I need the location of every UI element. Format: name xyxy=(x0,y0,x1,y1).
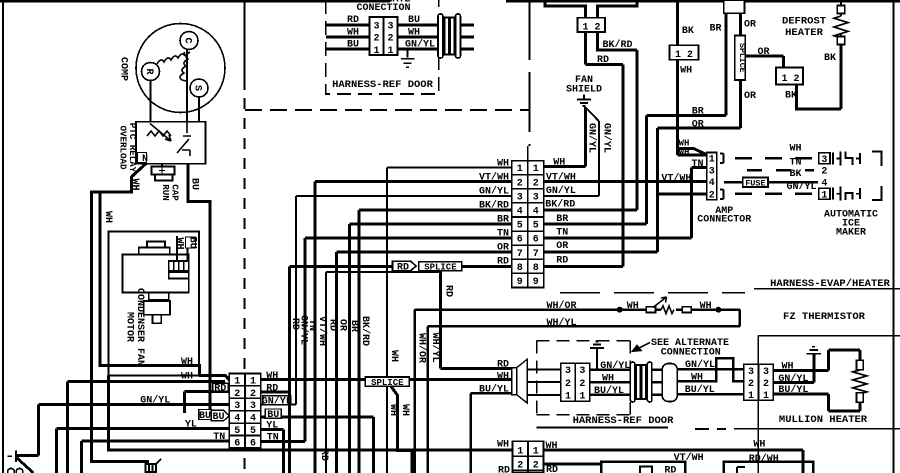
SPLICE box xyxy=(419,262,462,271)
svg-text:3: 3 xyxy=(373,21,379,32)
amp bracket pin2 xyxy=(720,190,724,200)
mullion connector xyxy=(744,364,774,400)
connector A dividers xyxy=(229,374,260,449)
wire RD left xyxy=(326,24,370,27)
fuse wire row4 xyxy=(724,181,818,184)
svg-text:2: 2 xyxy=(373,34,379,45)
svg-text:6: 6 xyxy=(250,438,256,449)
SPLICE box bottom xyxy=(365,377,409,386)
wire RD pin1 down + tee xyxy=(544,32,623,266)
dashed remnant y=429 xyxy=(695,428,726,430)
wire WH to bottom connector xyxy=(109,376,513,451)
svg-text:WH: WH xyxy=(408,28,420,39)
bottom box 2 inner mark xyxy=(737,467,745,473)
svg-text:6: 6 xyxy=(517,235,523,246)
terminal S xyxy=(190,79,208,97)
wire WH right xyxy=(676,310,740,327)
harness boundary dashed vertical x=244.5 xyxy=(244,0,246,90)
wire compressor C to relay xyxy=(186,50,188,122)
svg-text:WH: WH xyxy=(266,371,278,382)
winding C-S xyxy=(180,52,190,81)
wire BK/RD row4 xyxy=(359,210,512,473)
exit diagonal xyxy=(17,458,34,473)
svg-text:BK: BK xyxy=(789,169,801,180)
wires grommet to barrel xyxy=(652,370,662,395)
wire RD to funnel xyxy=(441,367,512,370)
svg-text:RD: RD xyxy=(266,384,278,395)
dashes row3 xyxy=(747,169,814,172)
svg-text:BU: BU xyxy=(187,237,198,249)
wire GN/YL crossover jog xyxy=(677,358,744,381)
svg-text:BK/RD: BK/RD xyxy=(479,200,509,212)
svg-text:RD: RD xyxy=(497,359,509,370)
wire TN to pin6 xyxy=(81,441,229,473)
wire BU from relay to run-cap side xyxy=(188,164,210,411)
wire GN/YL fan shield diagonal xyxy=(544,106,599,196)
svg-text:BU: BU xyxy=(212,412,224,423)
svg-text:6: 6 xyxy=(533,235,539,246)
grommet exit wires xyxy=(456,25,474,49)
wire WH to amp pin1 lower xyxy=(678,153,707,156)
wire BU left xyxy=(326,48,370,51)
page left border line xyxy=(2,2,4,473)
wire RD thin branch xyxy=(326,272,441,473)
svg-text:C: C xyxy=(182,37,193,43)
wire WH branch to motor bottom xyxy=(100,192,200,376)
winding R-C xyxy=(157,52,185,64)
splice vertical box xyxy=(735,36,745,81)
svg-text:SHIELD: SHIELD xyxy=(566,85,602,96)
wire WH to amp pin1 upper xyxy=(678,148,707,154)
svg-text:SPLICE: SPLICE xyxy=(424,263,457,273)
wire WH splice drop xyxy=(391,386,412,473)
dashes row2 xyxy=(735,193,814,196)
wire OR splice top xyxy=(739,13,742,35)
svg-text:YL: YL xyxy=(266,420,278,431)
9-pin dividers xyxy=(527,161,529,288)
svg-text:BK/RD: BK/RD xyxy=(603,39,633,51)
wire BU row4 right xyxy=(261,417,374,473)
svg-text:BK: BK xyxy=(824,53,836,64)
svg-text:2: 2 xyxy=(250,389,256,400)
wire WH mullion xyxy=(773,350,860,370)
svg-text:WH: WH xyxy=(181,357,193,368)
svg-text:WH: WH xyxy=(497,440,509,451)
wire TN row6 right xyxy=(261,440,305,443)
svg-text:7: 7 xyxy=(517,249,523,260)
wire BU/YL row1 to grommet xyxy=(590,394,631,397)
svg-text:BK/RD: BK/RD xyxy=(602,0,632,7)
svg-text:GN/YL: GN/YL xyxy=(586,123,598,153)
svg-text:BK/RD: BK/RD xyxy=(545,199,575,211)
svg-text:RD: RD xyxy=(498,466,510,473)
9-pin connector body xyxy=(512,161,544,288)
wire WH below connector xyxy=(676,60,679,155)
svg-text:HEATER: HEATER xyxy=(785,27,824,39)
motor enclosure box xyxy=(109,232,199,376)
svg-text:CONNECTOR: CONNECTOR xyxy=(697,215,751,226)
svg-text:WH: WH xyxy=(789,144,801,155)
wire TN to amp pin3 xyxy=(544,168,707,238)
wire OR branch to amp pin2 xyxy=(658,192,707,195)
svg-text:GN/YL: GN/YL xyxy=(786,181,816,193)
svg-text:SPLICE: SPLICE xyxy=(737,43,746,73)
arrow to box xyxy=(633,343,651,352)
wire BU/YL mullion xyxy=(773,394,860,411)
wire WH left xyxy=(326,36,370,39)
svg-text:2: 2 xyxy=(821,167,827,178)
svg-text:TN: TN xyxy=(497,229,509,240)
ice maker right bracket top xyxy=(872,152,882,167)
label RD boxed xyxy=(213,383,228,391)
wire BU/YL to mullion connector xyxy=(677,393,744,396)
svg-text:WH: WH xyxy=(680,65,692,76)
connector A body xyxy=(229,374,260,449)
svg-text:1: 1 xyxy=(565,391,571,402)
svg-text:TN: TN xyxy=(306,319,317,331)
svg-text:8: 8 xyxy=(533,263,539,274)
connector 1-2 (BK/WH) xyxy=(678,0,707,155)
svg-text:TN: TN xyxy=(556,227,568,238)
ground symbol below GN/YL xyxy=(401,49,415,67)
svg-text:BR: BR xyxy=(709,24,721,35)
svg-text:HARNESS-REF DOOR: HARNESS-REF DOOR xyxy=(332,79,434,91)
9-pin left side wires xyxy=(296,168,512,473)
svg-text:1: 1 xyxy=(234,376,240,387)
wire WH mid xyxy=(656,308,662,311)
svg-text:4: 4 xyxy=(533,207,539,218)
svg-text:RD: RD xyxy=(546,465,558,473)
relay switch xyxy=(177,122,191,156)
connector 1-2 defrost xyxy=(776,68,803,85)
svg-text:1: 1 xyxy=(533,164,539,175)
svg-text:RD: RD xyxy=(318,449,329,461)
dashes row1 xyxy=(735,157,818,160)
wire WH row2 to grommet xyxy=(590,381,631,384)
small circles xyxy=(8,468,15,473)
svg-text:RD: RD xyxy=(560,0,572,7)
svg-text:1: 1 xyxy=(763,391,769,402)
svg-text:WH: WH xyxy=(174,237,185,249)
wire WH right xyxy=(398,36,440,39)
svg-text:2: 2 xyxy=(687,50,693,61)
svg-text:3: 3 xyxy=(748,367,754,378)
svg-text:2: 2 xyxy=(533,178,539,189)
overload element zigzag xyxy=(147,131,171,136)
svg-text:TN: TN xyxy=(267,433,279,444)
svg-text:1: 1 xyxy=(387,46,393,57)
wire BR xyxy=(544,13,726,224)
ice maker contacts row1 xyxy=(833,187,860,201)
wire conn3 pin2 to heater xyxy=(797,45,842,110)
svg-text:1: 1 xyxy=(675,50,681,61)
svg-text:3: 3 xyxy=(234,401,240,412)
svg-text:RD: RD xyxy=(214,384,226,395)
ice maker terminal 3 boxed xyxy=(819,153,830,164)
svg-text:OR: OR xyxy=(497,243,509,254)
wire BU flag feed xyxy=(208,411,211,415)
svg-text:WH/OR: WH/OR xyxy=(546,300,576,312)
svg-text:7: 7 xyxy=(533,249,539,260)
svg-text:WH: WH xyxy=(700,301,712,312)
top box with OR/BR leads xyxy=(724,0,745,13)
svg-text:9: 9 xyxy=(533,277,539,288)
wire RD from top edge xyxy=(545,0,586,18)
svg-text:SPLICE: SPLICE xyxy=(371,378,404,388)
junction dot left xyxy=(617,307,623,313)
svg-text:MULLION HEATER: MULLION HEATER xyxy=(779,414,868,426)
svg-text:CONECTION: CONECTION xyxy=(356,3,410,14)
ice maker terminal 1 boxed xyxy=(819,188,830,199)
svg-text:RD: RD xyxy=(443,285,454,297)
svg-text:1: 1 xyxy=(582,22,588,33)
mullion section divider vertical xyxy=(757,336,759,473)
wire GN/YL row3 to grommet xyxy=(590,368,631,371)
svg-text:RD: RD xyxy=(347,15,359,26)
svg-text:3: 3 xyxy=(533,192,539,203)
wire BU right xyxy=(398,24,440,27)
svg-text:4: 4 xyxy=(234,414,240,425)
svg-text:WH: WH xyxy=(102,211,113,223)
svg-text:2: 2 xyxy=(748,379,754,390)
run cap plus mark xyxy=(159,168,165,174)
svg-text:BU: BU xyxy=(347,40,359,51)
dashed box xyxy=(537,341,631,415)
ground symbol door xyxy=(590,342,604,349)
svg-text:RD: RD xyxy=(497,257,509,268)
svg-text:BK: BK xyxy=(785,91,797,102)
svg-text:WH: WH xyxy=(129,178,140,190)
wire RD left of pin2 xyxy=(184,391,229,413)
evap section dashed boundary y=292.8 xyxy=(560,292,745,294)
svg-text:2: 2 xyxy=(594,22,600,33)
svg-text:BU/YL: BU/YL xyxy=(594,385,624,397)
svg-text:WH/YL: WH/YL xyxy=(546,317,576,329)
svg-text:2: 2 xyxy=(579,379,585,390)
bottom-right section line y=428.8 xyxy=(734,428,900,430)
svg-text:4: 4 xyxy=(517,207,523,218)
wire WH row1 xyxy=(387,168,512,473)
terminal N box xyxy=(138,153,147,163)
svg-text:VT/WH: VT/WH xyxy=(546,171,576,183)
mullion section top line xyxy=(758,335,900,337)
svg-text:WH: WH xyxy=(399,404,410,416)
wire GN/YL row3 xyxy=(296,196,512,405)
overload arrow xyxy=(150,124,171,142)
svg-text:WH: WH xyxy=(181,371,193,382)
amp bracket pin1 xyxy=(720,154,724,164)
svg-text:WH: WH xyxy=(691,373,703,384)
svg-text:WH: WH xyxy=(387,404,398,416)
thermistor terminal right xyxy=(682,307,691,313)
svg-text:RD: RD xyxy=(327,319,338,331)
svg-text:2: 2 xyxy=(387,34,393,45)
mullion heater resistor xyxy=(853,360,867,402)
svg-text:PTC RELAY: PTC RELAY xyxy=(127,123,138,173)
svg-text:2: 2 xyxy=(709,190,715,201)
svg-text:BR: BR xyxy=(497,215,509,226)
wire BU/YL to funnel xyxy=(471,393,512,473)
door connector (bottom) 3/2/1 xyxy=(527,370,561,395)
svg-text:WH: WH xyxy=(388,350,399,362)
svg-text:GN/YL: GN/YL xyxy=(405,39,435,51)
svg-text:5: 5 xyxy=(250,426,256,437)
svg-text:WH: WH xyxy=(497,371,509,382)
wire GN/YL to pin3 xyxy=(16,405,229,456)
wire compressor S to relay xyxy=(198,97,200,122)
svg-text:GN/YL: GN/YL xyxy=(600,360,630,372)
svg-text:OR: OR xyxy=(744,19,756,30)
wire OR row7 xyxy=(336,252,512,473)
thermistor zigzag xyxy=(661,306,674,314)
label GN/YL boxed right of pin3 xyxy=(263,396,291,405)
wire YL row5 right xyxy=(261,429,284,473)
boundary line above 9-pin connector xyxy=(527,146,529,161)
svg-text:2: 2 xyxy=(763,379,769,390)
svg-text:3: 3 xyxy=(763,367,769,378)
svg-text:8: 8 xyxy=(517,263,523,274)
svg-text:2: 2 xyxy=(565,379,571,390)
wire BK/RD pin2 down xyxy=(544,32,637,210)
svg-text:CONDENSER FAN: CONDENSER FAN xyxy=(134,288,145,366)
wire WH to funnel (already drawn row1) xyxy=(409,378,512,381)
wire RD row8 to flag xyxy=(290,266,393,473)
wire compressor R to relay xyxy=(150,81,152,122)
FUSE box xyxy=(743,178,768,188)
svg-text:VT/WH: VT/WH xyxy=(479,172,509,184)
svg-text:WH/OR: WH/OR xyxy=(416,333,428,363)
svg-text:3: 3 xyxy=(565,366,571,377)
svg-text:1: 1 xyxy=(781,74,787,85)
svg-text:FUSE: FUSE xyxy=(745,179,765,189)
label BU boxed xyxy=(199,410,212,420)
svg-text:WH: WH xyxy=(347,28,359,39)
wire WH from relay N down-left loop xyxy=(91,164,149,462)
svg-text:WH: WH xyxy=(627,301,639,312)
label BU boxed right of pin4 xyxy=(265,409,281,418)
svg-text:GN/YL: GN/YL xyxy=(262,395,292,407)
svg-text:4: 4 xyxy=(250,414,256,425)
svg-text:1: 1 xyxy=(373,46,379,57)
svg-text:MAKER: MAKER xyxy=(836,228,866,239)
connector A right-side wires xyxy=(261,380,512,473)
harness boundary dashed horizontal y=110 xyxy=(245,109,530,111)
motor shaft xyxy=(149,293,169,301)
thermistor terminal left xyxy=(646,307,655,313)
defrost heater resistor xyxy=(834,0,848,45)
svg-text:3: 3 xyxy=(709,166,715,177)
svg-text:1: 1 xyxy=(250,376,256,387)
run cap connector lead xyxy=(161,164,163,167)
svg-text:3: 3 xyxy=(250,401,256,412)
compressor circle xyxy=(136,24,225,113)
motor terminal block hatched xyxy=(169,261,189,271)
svg-text:BU/YL: BU/YL xyxy=(685,384,715,396)
label BU flag xyxy=(211,410,229,421)
svg-text:3: 3 xyxy=(517,192,523,203)
svg-text:2: 2 xyxy=(533,461,539,472)
svg-text:BU: BU xyxy=(199,411,211,422)
svg-text:5: 5 xyxy=(517,221,523,232)
svg-text:TN: TN xyxy=(692,159,704,170)
svg-text:COMP: COMP xyxy=(118,57,129,81)
wire VT/WH row2 to amp pin4 xyxy=(544,180,707,183)
motor lead WH xyxy=(176,236,178,261)
harness boundary dashed vertical x=529.5 xyxy=(529,0,531,146)
svg-text:GN/YL: GN/YL xyxy=(685,359,715,371)
svg-text:BR: BR xyxy=(692,107,704,118)
svg-text:OR: OR xyxy=(692,120,704,131)
svg-text:RUN: RUN xyxy=(160,184,171,201)
motor lead BU xyxy=(187,248,189,261)
svg-text:OR: OR xyxy=(744,91,756,102)
svg-text:WH: WH xyxy=(553,157,565,168)
svg-text:3: 3 xyxy=(821,155,827,166)
ice maker right bracket bottom xyxy=(872,186,882,200)
svg-text:HARNESS-REF DOOR: HARNESS-REF DOOR xyxy=(573,415,675,427)
wire VT/WH row2 xyxy=(315,182,512,473)
wire RD splice to pin8 xyxy=(462,265,512,268)
svg-text:BU: BU xyxy=(408,15,420,26)
svg-text:VT/WH: VT/WH xyxy=(661,173,691,185)
page top border bar left xyxy=(0,0,390,2)
svg-text:2: 2 xyxy=(517,461,523,472)
terminal R xyxy=(142,63,160,81)
svg-text:WH/YL: WH/YL xyxy=(429,333,441,363)
svg-text:BR: BR xyxy=(556,214,568,225)
svg-text:2: 2 xyxy=(234,389,240,400)
connector 1-2 top xyxy=(578,18,606,32)
RD flag xyxy=(393,261,417,271)
svg-text:3: 3 xyxy=(579,366,585,377)
svg-text:1: 1 xyxy=(579,391,585,402)
wire WH row1 right through splice xyxy=(261,378,512,381)
ice maker contacts row3 xyxy=(833,152,860,166)
svg-text:OR: OR xyxy=(556,241,568,252)
door connector 3/2/1 xyxy=(370,17,398,55)
svg-text:9: 9 xyxy=(517,277,523,288)
box1 inner mark xyxy=(640,467,652,473)
svg-text:WH: WH xyxy=(782,362,794,373)
svg-text:GN/YL: GN/YL xyxy=(601,123,613,153)
wire WH into pin1 via diagonal xyxy=(199,376,230,381)
wire YL to pin5 xyxy=(56,429,229,473)
svg-text:1: 1 xyxy=(709,155,715,166)
motor cap xyxy=(147,242,165,248)
svg-text:RD: RD xyxy=(397,262,409,273)
svg-text:4: 4 xyxy=(709,178,715,189)
svg-text:1: 1 xyxy=(748,391,754,402)
svg-text:2: 2 xyxy=(793,74,799,85)
connector B xyxy=(513,441,544,473)
svg-text:5: 5 xyxy=(234,426,240,437)
barrel grommet xyxy=(662,364,677,402)
svg-text:RD/WH: RD/WH xyxy=(749,453,779,465)
svg-text:6: 6 xyxy=(234,438,240,449)
wire BK/RD from top edge xyxy=(598,0,638,18)
wire GN/YL row3 right riser xyxy=(261,404,296,406)
bottom box 1 xyxy=(601,462,685,473)
svg-text:WH: WH xyxy=(602,373,614,384)
wire RD splice down xyxy=(441,271,512,369)
section boundary line y=427.5 xyxy=(537,427,668,429)
svg-text:BR: BR xyxy=(348,320,359,332)
svg-text:WH: WH xyxy=(679,148,690,158)
motor body xyxy=(123,255,189,293)
svg-text:BU/YL: BU/YL xyxy=(778,384,808,396)
svg-text:R: R xyxy=(143,68,154,74)
svg-text:1: 1 xyxy=(533,447,539,458)
